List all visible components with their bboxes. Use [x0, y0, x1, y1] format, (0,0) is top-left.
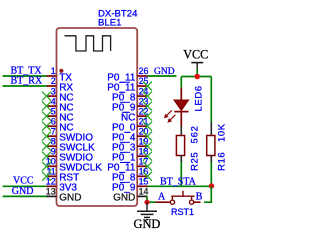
- wire junction down to button B: [204, 186, 211, 202]
- svg-text:5: 5: [51, 106, 56, 116]
- LED6 designator label: [194, 85, 205, 111]
- no-connect X on pin 21: [143, 122, 152, 131]
- pin 26 (P0_11) right side: [107, 66, 148, 83]
- wire VCC stem: [196, 69, 198, 77]
- svg-text:15: 15: [139, 177, 149, 187]
- power port VCC: [183, 48, 208, 69]
- no-connect X on pin 20: [143, 132, 152, 141]
- overline mark on pin 18 name: [120, 151, 125, 153]
- svg-text:4: 4: [51, 96, 56, 106]
- no-connect X on pin 16: [143, 172, 152, 181]
- net label VCC left: [13, 176, 34, 187]
- overline mark on pin 25 name: [120, 81, 130, 83]
- no-connect X on pin 10: [42, 162, 51, 171]
- svg-text:1: 1: [51, 66, 56, 76]
- waveform symbol inside U/BLE1: [65, 36, 111, 51]
- svg-text:12: 12: [46, 177, 56, 187]
- pin-1 orientation dot: [59, 69, 63, 73]
- svg-text:562: 562: [190, 125, 201, 143]
- net label GND right: [154, 67, 175, 77]
- svg-text:VCC: VCC: [13, 176, 34, 187]
- wire net GND from pin 26: [148, 75, 177, 77]
- no-connect X on pin 8: [42, 142, 51, 151]
- value label 10K: [217, 123, 228, 142]
- svg-text:7: 7: [51, 126, 56, 136]
- svg-text:14: 14: [139, 187, 149, 197]
- wire LED to R25: [0, 0, 1, 1]
- wire LED branch down: [180, 77, 182, 88]
- pin 4 (NC) left side: [47, 96, 74, 113]
- svg-text:VCC: VCC: [183, 48, 208, 62]
- svg-text:BT_STA: BT_STA: [160, 176, 197, 187]
- svg-text:BLE1: BLE1: [98, 18, 121, 29]
- resistor R16: [207, 123, 215, 163]
- wire net BT_STA from pin 15: [148, 185, 212, 187]
- pin B label of RST1: [196, 192, 203, 203]
- resistor R25: [176, 126, 184, 162]
- no-connect X on pin 17: [143, 162, 152, 171]
- svg-text:R25: R25: [190, 152, 201, 171]
- pin 1 (TX) left side: [47, 66, 73, 83]
- pin 24 (P0_8) right side: [112, 86, 148, 103]
- wire VCC rail horizontal: [181, 76, 211, 78]
- overline mark on pin 17 name: [120, 162, 130, 164]
- overline mark on pin 20 name: [125, 131, 130, 133]
- svg-text:GND: GND: [154, 67, 175, 77]
- svg-text:10K: 10K: [217, 123, 228, 142]
- overline mark on pin 24 name: [120, 91, 125, 93]
- junction dot BT_STA / R16 / button: [209, 183, 214, 188]
- overline mark on pin 23 name: [120, 101, 125, 103]
- ground symbol GND: [134, 202, 161, 231]
- svg-text:8: 8: [51, 136, 56, 146]
- svg-text:26: 26: [139, 66, 149, 76]
- pin 7 (SWDIO) left side: [47, 126, 94, 143]
- pin 6 (NC) left side: [47, 116, 74, 133]
- junction dot VCC rail: [194, 74, 200, 80]
- net label BT_TX: [11, 65, 43, 76]
- no-connect X on pin 19: [143, 142, 152, 151]
- net label BT_STA: [160, 176, 197, 187]
- no-connect X on pin 23: [143, 102, 152, 111]
- pin 15 (P0_9) right side: [112, 177, 148, 194]
- pin 25 (P0_11) right side: [107, 76, 148, 93]
- svg-text:R16: R16: [217, 152, 228, 171]
- no-connect X on pin 5: [42, 112, 51, 121]
- svg-text:3: 3: [51, 86, 56, 96]
- svg-text:GND: GND: [12, 186, 34, 197]
- no-connect X on pin 22: [143, 112, 152, 121]
- junction dot ground node: [144, 200, 149, 205]
- wire pin 14 to ground: [146, 196, 148, 202]
- svg-text:B: B: [196, 192, 203, 203]
- no-connect X on pin 6: [42, 122, 51, 131]
- net label BT_RX: [11, 76, 43, 87]
- no-connect X on pin 11: [42, 172, 51, 181]
- wire VCC to R16: [210, 77, 212, 123]
- no-connect X on pin 7: [42, 132, 51, 141]
- pin 13 (GND) left side: [46, 187, 82, 204]
- pin 18 (P0_1) right side: [112, 146, 148, 163]
- designator BLE1 value DX-BT24: [98, 9, 138, 29]
- designator label R16: [217, 152, 228, 171]
- pin 14 (GND) right side: [113, 187, 148, 204]
- net label GND left: [12, 186, 34, 197]
- pin 2 (RX) left side: [47, 76, 74, 93]
- svg-text:GND: GND: [113, 193, 135, 204]
- svg-text:A: A: [158, 192, 166, 203]
- overline mark on pin 22 name: [122, 111, 129, 113]
- wire net VCC to pin 12: [3, 185, 47, 187]
- svg-text:GND: GND: [134, 217, 161, 231]
- wire junction to button A: [147, 201, 156, 203]
- svg-text:9: 9: [51, 146, 56, 156]
- svg-text:13: 13: [46, 187, 56, 197]
- wire net BT_RX to pin 2: [3, 85, 47, 87]
- pin 19 (P0_3) right side: [112, 136, 148, 153]
- svg-text:RST1: RST1: [171, 207, 194, 217]
- LED6 diode: [174, 88, 189, 127]
- pin 9 (SWDIO) left side: [47, 146, 94, 163]
- wire net GND to pin 13: [3, 195, 47, 197]
- no-connect X on pin 3: [42, 92, 51, 101]
- svg-text:LED6: LED6: [194, 85, 205, 111]
- pin 23 (P0_9) right side: [112, 96, 148, 113]
- no-connect X on pin 9: [42, 152, 51, 161]
- pin 8 (SWCLK) left side: [47, 136, 96, 153]
- svg-text:2: 2: [51, 76, 56, 86]
- switch RST1 push button: [156, 191, 201, 204]
- overline mark on pin 16 name: [120, 172, 125, 174]
- pin 20 (P0_4) right side: [112, 126, 148, 143]
- designator label R25: [190, 152, 201, 171]
- pin 11 (RST) left side: [46, 167, 79, 184]
- LED6 emission arrows: [164, 110, 175, 122]
- pin 16 (P0_8) right side: [112, 167, 148, 184]
- pin A label of RST1: [158, 192, 166, 203]
- svg-text:BT_RX: BT_RX: [11, 76, 43, 87]
- pin 21 (P0_0) right side: [112, 116, 148, 133]
- no-connect X on pin 24: [143, 92, 152, 101]
- no-connect X on pin 4: [42, 102, 51, 111]
- no-connect X on pin 18: [143, 152, 152, 161]
- svg-text:6: 6: [51, 116, 56, 126]
- wire R25 to BT_STA: [180, 162, 182, 186]
- no-connect X on pin 25: [143, 82, 152, 91]
- svg-text:GND: GND: [59, 193, 81, 204]
- overline mark on pin 19 name: [120, 141, 125, 143]
- wire net BT_TX to pin 1: [3, 75, 47, 77]
- overline mark on pin 15 name: [120, 182, 125, 184]
- pin 17 (P0_11) right side: [107, 157, 148, 174]
- pin 5 (NC) left side: [47, 106, 74, 123]
- pin 22 (NC) right side: [121, 106, 149, 123]
- IC BLE1 body outline: [57, 28, 138, 206]
- pin 10 (SWDCLK) left side: [46, 157, 103, 174]
- designator RST1: [171, 207, 194, 217]
- value label 562: [190, 125, 201, 143]
- pin 3 (NC) left side: [47, 86, 74, 103]
- wire R16 down to junction: [210, 162, 212, 186]
- pin 12 (3V3) left side: [46, 177, 78, 194]
